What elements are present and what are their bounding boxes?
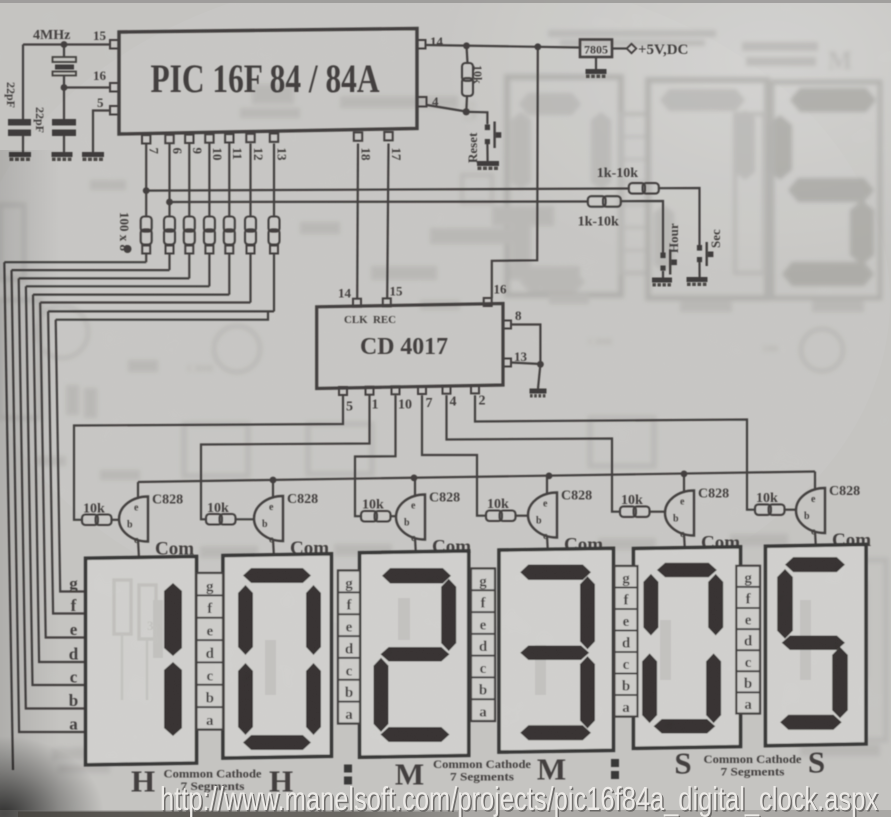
bus vertical 2 to segment a [12, 270, 86, 732]
pin 1 stub of U2 [366, 387, 374, 395]
push button SW3 Sec [697, 245, 702, 251]
wire emitter of Q6 to rail [814, 472, 816, 491]
wire base resistor to Q5 [650, 511, 666, 513]
pin 5 stub of U1 [110, 106, 119, 115]
ghost marks inside displays (decorative) [114, 580, 811, 700]
pin 6 stub of U1 [165, 135, 173, 143]
pin 10 stub of U2 [392, 386, 400, 394]
segment c of DIS5 [706, 653, 721, 723]
ground below pin 5 [82, 152, 104, 157]
segment c of DIS1 (digit 1) [164, 662, 182, 736]
pin 17 stub of U1 [384, 132, 392, 140]
wire junction to ground [538, 364, 540, 388]
segment d of DIS5 [654, 719, 716, 734]
wire emitter of Q1 to rail [137, 482, 139, 499]
wire emitter of Q4 to rail [546, 476, 548, 495]
pin 18 stub of U1 [354, 132, 362, 140]
wire R4 bottom to bus corner [208, 254, 210, 287]
segment d of DIS6 [780, 715, 842, 730]
pad below array resistor R7 [270, 246, 278, 254]
wire U2 pin 4 to driver base [447, 395, 621, 511]
wire junction to pin 16 [64, 86, 110, 88]
ground below SW2 [652, 278, 672, 283]
wire PIC pin to array resistor R3 [188, 144, 190, 217]
segment e of DIS2 [238, 663, 253, 735]
segment a of DIS5 (digit 0) [657, 563, 717, 577]
wire R6 bottom to bus corner [249, 254, 251, 303]
wire SW1 to ground [486, 144, 488, 161]
segment e of DIS3 [374, 658, 389, 732]
resistor array 100x8 element R5 [224, 217, 235, 232]
segment a of DIS3 (digit 2) [382, 568, 451, 584]
pin 15 stub of U2 [383, 298, 391, 306]
wire PIC pin to array resistor R7 [273, 144, 275, 217]
pin 4 stub of U1 (MCLR) [417, 97, 427, 107]
transistor Q3 C828 body [396, 495, 425, 540]
pin 16 stub of U1 [110, 83, 119, 92]
segment d of DIS3 [381, 727, 450, 742]
ground below C1 [9, 152, 31, 157]
segment select column of DIS6 [736, 566, 760, 714]
wire R9 bottom to reset node [465, 96, 468, 112]
segment g of DIS3 [381, 647, 450, 662]
segment select column of DIS4 [471, 569, 495, 722]
node pin8/13 junction [537, 361, 544, 368]
resistor array 100x8 element R6 [245, 217, 256, 232]
push button SW2 Hour [660, 253, 665, 259]
segment g of DIS6 [782, 636, 845, 651]
transistor Q5 C828 body [665, 491, 694, 536]
pad below array resistor R6 [247, 246, 255, 254]
ground below SW3 [687, 277, 708, 282]
display DIS6 7-segment module body [766, 545, 867, 746]
wire base resistor to Q3 [391, 515, 397, 517]
ground below SW1 [477, 161, 499, 166]
pin 7 stub of U2 [418, 386, 426, 394]
wire R10 to Sec switch [659, 188, 700, 245]
wire pin 13 to junction [511, 363, 540, 365]
capacitor C2 22pF [52, 119, 76, 126]
wire PIC pin to array resistor R4 [208, 144, 210, 217]
wire collector of Q3 to display Com [415, 538, 416, 557]
bus line 6 horizontal [40, 301, 250, 303]
bus vertical 4 to segment c [26, 286, 86, 685]
pin 11 stub of U1 [225, 134, 233, 142]
display DIS2 7-segment module body [223, 554, 331, 758]
wire PIC pin to array resistor R6 [249, 144, 251, 217]
segment a of DIS4 (digit 3) [520, 565, 591, 581]
bus vertical 5 to segment d [33, 295, 86, 662]
colon separator 2 [611, 759, 619, 767]
pin 2 stub of U2 [471, 385, 479, 393]
wire junction down to C2 [63, 88, 65, 120]
segment f of DIS5 [643, 574, 658, 636]
bottom scan shadow bar [18, 812, 458, 817]
pad below array resistor R1 [142, 246, 150, 254]
wire U2 pin 7 to driver base [422, 395, 486, 515]
node emitter rail junction x=549 [546, 473, 553, 480]
resistor array 100x8 element R2 [164, 217, 175, 232]
bus line 7 horizontal [48, 310, 274, 312]
node emitter rail junction x=684 [681, 471, 688, 478]
node junction at +5V rail [534, 43, 541, 50]
segment c of DIS4 [580, 656, 595, 728]
wire emitter of Q2 to rail [272, 480, 274, 498]
transistor Q1 C828 body [119, 497, 148, 542]
wire collector of Q2 to display Com [273, 539, 274, 558]
wire pin7 row to R10 [146, 189, 629, 191]
segment b of DIS1 (digit 1) [164, 583, 182, 656]
wire collector of Q4 to display Com [547, 536, 548, 555]
bus vertical 7 to segment f [48, 311, 86, 613]
wire emitter of Q5 to rail [683, 474, 685, 493]
segment d of DIS2 [243, 735, 311, 750]
resistor array 100x8 element R4 [204, 217, 215, 232]
node crystal-bottom junction [61, 84, 68, 91]
wire pin 4 to reset node [427, 105, 466, 112]
wire base resistor to Q1 [112, 519, 120, 521]
wire common emitter rail [138, 472, 815, 483]
wire R5 bottom to bus corner [228, 254, 230, 295]
wire base resistor to Q6 [785, 509, 797, 511]
segment b of DIS4 [580, 576, 595, 649]
segment select column of DIS3 [338, 571, 360, 724]
transistor Q4 C828 body [528, 493, 557, 538]
node emitter rail junction x=273 [270, 477, 277, 484]
wire R11 to Hour switch [621, 201, 663, 253]
wire collector of Q6 to display Com [815, 531, 816, 550]
wire SW2 to ground [662, 271, 664, 278]
ground below C2 [52, 152, 73, 157]
wire reset node to switch [466, 112, 487, 125]
crystal XTAL1 4MHz [53, 57, 77, 62]
wire crystal to lower junction [63, 76, 65, 88]
node junction pin 6 column [166, 199, 173, 206]
segment b of DIS2 [306, 585, 321, 655]
terminal circle +5V [627, 44, 637, 53]
segment b of DIS5 [708, 574, 723, 636]
ground below 7805 [586, 69, 607, 74]
capacitor C1 22pF [8, 119, 31, 126]
pad below array resistor R2 [166, 246, 174, 254]
wire PIC pin to array resistor R1 [145, 144, 147, 217]
wire pin6 row to R11 [170, 200, 588, 203]
pin 15 stub of U1 [110, 40, 119, 49]
segment f of DIS2 [238, 585, 253, 655]
wire pin 8 to pin 13 junction [511, 325, 540, 365]
pin 13 stub of U2 [503, 359, 511, 367]
svg-text:http://www.manelsoft.com/proje: http://www.manelsoft.com/projects/pic16f… [160, 780, 878, 817]
resistor R10 1k-10k body [629, 183, 645, 194]
wire emitter of Q3 to rail [414, 478, 416, 497]
node blob at network bottom [124, 245, 132, 253]
wire PIC pin to array resistor R5 [228, 144, 230, 217]
pin 7 stub of U1 [142, 135, 150, 143]
pin 8 stub of U2 [503, 321, 511, 329]
wire U2 pin 10 to driver base [355, 395, 396, 516]
segment b of DIS3 [441, 579, 456, 651]
wire +5V rail down to CD4017 pin 16 [492, 47, 538, 298]
wire R2 bottom to bus corner [168, 254, 170, 271]
resistor array 100x8 element R3 [184, 217, 195, 232]
wire crystal top to pin 15 [23, 43, 110, 45]
resistor R9 10k pullup body [462, 63, 473, 81]
resistor 10k base resistor of Q6 [755, 504, 771, 515]
resistor 10k base resistor of Q5 [620, 506, 636, 517]
wire SW3 to ground [698, 262, 700, 277]
display DIS1 7-segment module body [86, 557, 197, 765]
pin 12 stub of U1 [246, 134, 254, 142]
bus vertical 6 to segment e [40, 303, 85, 638]
resistor 10k base resistor of Q4 [486, 511, 502, 522]
resistor 10k base resistor of Q1 [82, 515, 98, 526]
counter U2 CD4017 body [317, 304, 503, 389]
pin 5 stub of U2 [339, 387, 347, 395]
pin 9 stub of U1 [185, 135, 193, 143]
display DIS3 7-segment module body [360, 551, 469, 757]
segment g of DIS4 [520, 646, 589, 661]
resistor 10k base resistor of Q2 [206, 514, 222, 525]
wire C2 to ground [63, 136, 65, 152]
pin 10 stub of U1 [205, 134, 213, 142]
colon separator 1 [344, 765, 352, 773]
wire pin 17 to CD4017 pin 15 [387, 144, 388, 299]
wire PIC pin to array resistor R2 [168, 144, 170, 217]
wire R1 bottom to bus corner [145, 254, 147, 263]
node crystal-top junction [61, 41, 68, 48]
pin 13 stub of U1 [270, 134, 278, 142]
bus line 8 horizontal [56, 311, 268, 319]
bus vertical 8 to segment g [56, 320, 86, 592]
segment e of DIS5 [642, 653, 657, 723]
pad below array resistor R4 [205, 246, 213, 254]
wire pin 5 to ground [93, 111, 110, 153]
resistor array 100x8 element R1 [141, 217, 152, 232]
segment d of DIS4 [520, 725, 591, 740]
pin 14 stub of U2 [353, 299, 361, 307]
wire U2 pin 5 to driver base [74, 395, 343, 520]
wire pin 18 to CD4017 CLK pin 14 [356, 144, 359, 299]
bus line 3 horizontal [19, 277, 190, 279]
pin 14 stub of U1 [417, 40, 426, 49]
bus line 1 horizontal [4, 261, 146, 263]
wire collector of Q5 to display Com [684, 534, 685, 553]
pad below array resistor R5 [225, 246, 233, 254]
wire +5V to R9 top [467, 46, 468, 63]
node emitter rail junction x=414 [411, 475, 418, 482]
bus line 5 horizontal [33, 294, 229, 296]
display DIS5 7-segment module body [634, 547, 741, 749]
resistor array 100x8 element R7 [269, 217, 280, 232]
segment select column of DIS5 [615, 566, 638, 717]
wire junction down to crystal [63, 45, 65, 58]
transistor Q6 C828 body [796, 488, 825, 533]
resistor 10k base resistor of Q3 [361, 511, 377, 522]
display DIS4 7-segment module body [499, 548, 613, 752]
segment c of DIS2 [306, 663, 321, 735]
pin 4 stub of U2 [443, 386, 451, 394]
segment f of DIS6 [777, 569, 793, 639]
wire top junction left and down to C1 [22, 45, 24, 120]
wire pin 14 to 7805 [426, 45, 580, 48]
microcontroller U1 PIC16F84/84A body [119, 29, 417, 135]
segment a of DIS2 (digit 0) [243, 568, 311, 583]
wire 7805 ground stub [595, 57, 597, 69]
bus vertical 1 [4, 262, 13, 770]
node reset junction [463, 108, 470, 115]
wire 7805 output [612, 47, 628, 49]
wire R7 bottom to bus corner [273, 254, 275, 312]
node junction at 10k pullup [463, 42, 470, 49]
bus line 4 horizontal [26, 285, 210, 287]
wire base resistor to Q4 [516, 515, 529, 517]
bus line 2 horizontal [12, 269, 170, 271]
pin 16 stub of U2 [484, 298, 492, 306]
voltage regulator U3 7805 body [580, 40, 612, 58]
node junction pin 7 column [143, 187, 150, 194]
wire U2 pin 1 to driver base [201, 395, 370, 519]
wire C1 to ground [22, 136, 24, 152]
ground below U2 [530, 389, 547, 394]
segment a of DIS6 (digit 5) [785, 557, 845, 572]
segment c of DIS6 [832, 647, 848, 718]
wire R3 bottom to bus corner [188, 254, 190, 279]
pad below array resistor R3 [185, 246, 193, 254]
wire U2 pin 2 to driver base [475, 395, 755, 509]
bus vertical 3 to segment b [19, 278, 86, 708]
resistor R11 1k-10k body [588, 196, 606, 207]
wire base resistor to Q2 [236, 518, 255, 520]
segment select column of DIS2 [197, 573, 224, 730]
transistor Q2 C828 body [254, 496, 283, 541]
push button SW1 Reset [485, 125, 490, 131]
wire collector of Q1 to display Com [138, 540, 139, 559]
